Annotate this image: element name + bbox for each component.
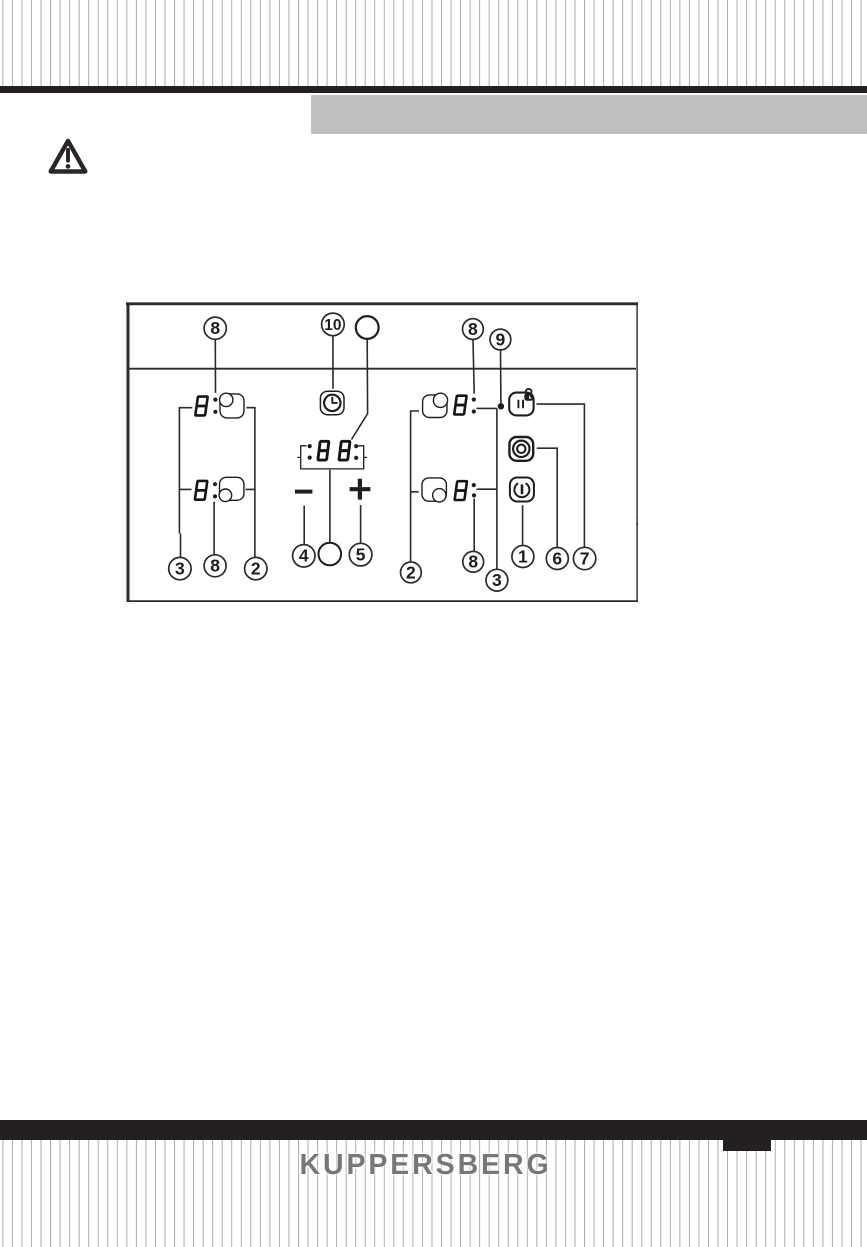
plus key xyxy=(350,479,371,500)
wire display4 colon joining xyxy=(477,488,497,490)
svg-text:1: 1 xyxy=(518,546,528,566)
colon front-right display xyxy=(472,483,476,498)
svg-text:6: 6 xyxy=(552,548,562,568)
top black bar xyxy=(0,86,867,93)
zone icon rear-right xyxy=(423,393,448,417)
callout 1 xyxy=(512,546,534,568)
wire from lower colon to callout 8 (left) xyxy=(213,502,215,555)
svg-text:8: 8 xyxy=(468,552,478,572)
callout circles xyxy=(169,313,596,591)
callout 8 rear-right xyxy=(463,319,484,340)
callout 3 right xyxy=(486,569,508,591)
svg-text:5: 5 xyxy=(356,545,366,565)
warning triangle icon xyxy=(40,130,100,185)
wire from callout 10 xyxy=(332,336,334,389)
svg-text:8: 8 xyxy=(468,319,478,339)
brand logotype xyxy=(0,1151,867,1184)
plain circle bottom xyxy=(319,543,342,566)
svg-text:7: 7 xyxy=(580,548,590,568)
right bracket to callout 2 xyxy=(246,408,255,558)
zone icon front-right xyxy=(422,478,446,502)
callout 2 left xyxy=(245,557,267,579)
wire from callout 9 xyxy=(500,350,502,404)
svg-text:3: 3 xyxy=(492,570,502,590)
svg-text:3: 3 xyxy=(175,559,185,579)
callout 6 xyxy=(546,548,568,570)
callout 7 xyxy=(573,547,595,569)
wire from timer display to plain circle xyxy=(329,470,331,543)
power level digit rear-right xyxy=(454,396,466,415)
footer striped band xyxy=(0,1140,867,1247)
minus key xyxy=(295,490,313,494)
wire from callout 8 top-right xyxy=(473,339,474,393)
colon rear-right display xyxy=(472,397,476,413)
timer colon left xyxy=(308,444,312,460)
zone icon rear-left xyxy=(220,393,245,418)
callout 8 bottom-left xyxy=(204,555,226,577)
vertical wire to callout 3 (right) xyxy=(496,408,498,569)
footer black bar xyxy=(0,1120,867,1140)
timer colon right xyxy=(354,444,358,460)
control panel diagram xyxy=(0,0,867,700)
specks on right border xyxy=(636,517,638,519)
svg-text:4: 4 xyxy=(299,546,309,566)
timer digit 8 (left) xyxy=(318,441,329,460)
callout 10 xyxy=(322,313,345,336)
power level digit rear-left xyxy=(195,397,207,416)
callout 2 right xyxy=(401,562,422,583)
panel outline box xyxy=(126,302,638,601)
wire from minus key to callout 4 xyxy=(303,506,305,545)
panel divider line xyxy=(130,368,637,370)
top striped band xyxy=(0,0,867,86)
power level digit front-left xyxy=(195,481,207,500)
key lock key with padlock xyxy=(509,389,533,416)
timer display frame xyxy=(297,446,367,469)
svg-text:2: 2 xyxy=(406,562,416,582)
power level digit front-right xyxy=(455,481,467,500)
svg-text:8: 8 xyxy=(210,318,220,338)
power on/off key xyxy=(510,478,534,502)
wire from callout 8 top-left xyxy=(214,339,216,393)
svg-text:10: 10 xyxy=(324,317,341,334)
callout 5 xyxy=(349,543,372,566)
callout 4 xyxy=(293,545,315,567)
wire lower colon to callout 8 (right) xyxy=(473,499,475,552)
plain circle top xyxy=(356,316,379,339)
wire from plus key to callout 5 xyxy=(360,505,362,543)
booster key (double circle) xyxy=(509,437,533,461)
callout 9 xyxy=(490,329,511,350)
wire lock key to callout 7 xyxy=(537,404,585,547)
svg-text:9: 9 xyxy=(496,329,506,349)
wire from top plain circle to timer display xyxy=(352,339,368,439)
colon front-left display xyxy=(213,482,217,498)
timer digit 8 (right) xyxy=(339,441,350,460)
svg-text:8: 8 xyxy=(210,556,220,576)
wire display3 colon to callout 3 vertical xyxy=(477,407,497,409)
gray title block xyxy=(311,95,867,134)
bracket right-section to callout 2 xyxy=(411,411,419,562)
callout 8 bottom-right xyxy=(463,551,484,572)
colon rear-left display xyxy=(213,398,217,414)
zone icon front-left xyxy=(219,477,244,501)
indicator dot (callout 9 target) xyxy=(498,403,504,409)
svg-text:2: 2 xyxy=(251,559,261,579)
timer key icon (clock) xyxy=(320,391,344,415)
callout 8 rear-left xyxy=(204,317,226,339)
footer black tab xyxy=(723,1140,772,1151)
left bracket to callout 3 xyxy=(179,408,192,558)
wire booster key to callout 6 xyxy=(537,448,557,547)
callout 3 left xyxy=(169,557,191,579)
wire power key to callout 1 xyxy=(522,505,524,545)
